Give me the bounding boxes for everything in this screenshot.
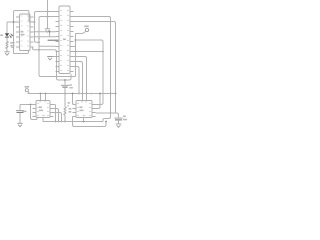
tick on node A wire — [11, 47, 13, 49]
wire IC2 right pin y21.5 to right bus x115.5 — [74, 22, 116, 114]
wire segment y22 from overlay bend to vertical bus — [29, 21, 35, 23]
wire IC2 right pin y16.5 to right bus x110.5 — [74, 17, 111, 114]
wire IC2 pin2 net vertical x39 — [39, 17, 76, 77]
wire LED net horizontal y22 — [7, 21, 20, 23]
wire IC2 right pin y61.5 down to IC5 top — [74, 62, 83, 101]
junction at (115.5,93.5) — [115, 93, 117, 95]
wire IC4 right pin y112.5 to bottom rail — [54, 113, 62, 122]
wire rail drop to IC5 left pin y104.5 — [73, 94, 77, 105]
resistor R2 mid vertical — [64, 94, 66, 108]
ground below C3 — [116, 124, 122, 127]
wire IC2 right pin y51.5 long to x103 — [70, 51, 103, 53]
junction at (39,42.3) — [38, 41, 40, 43]
terminal VCC node with wire y33.5 — [76, 32, 86, 34]
junction at (79,93.5) — [78, 93, 80, 95]
capacitor C1 under IC2 — [64, 80, 66, 85]
ground below R1 — [4, 52, 10, 55]
LED D1 — [5, 33, 9, 36]
capacitor C2 label — [22, 111, 26, 112]
wire IC5 right pin y108.5 up to rail — [96, 94, 101, 109]
wire resistor R1 to ground — [6, 49, 8, 52]
junction at (110.5,93.5) — [110, 93, 112, 95]
wire y40 to corner x103 — [76, 40, 104, 105]
junction at (40.5,93.5) — [40, 93, 42, 95]
wire vertical x75.5 from terminal to bottom bend — [75, 34, 77, 77]
IC U4 side label — [68, 102, 71, 103]
junction at (100,93.5) — [99, 93, 101, 95]
IC U2 26-pin DIP — [59, 6, 70, 74]
junction at (47.5,11.5) — [47, 11, 49, 13]
wire IC4 bottom stub to rail — [42, 118, 44, 122]
junction at (106,121.5) — [105, 121, 107, 123]
IC U2 label — [63, 38, 66, 40]
LED label — [0, 34, 3, 36]
junction at (83.5,121.5) — [83, 121, 85, 123]
wire endpoint node on rail — [91, 93, 93, 95]
IC U3 8-pin DIP — [36, 101, 50, 118]
wire IC2 pin y46.5 tie — [74, 46, 76, 48]
wire IC2 right pin y66.5 down to rail — [74, 67, 80, 94]
wire IC5 bottom stub — [83, 118, 85, 122]
junction at (59.5,121.5) — [58, 121, 60, 123]
wire horizontal y49.8 from IC1 pin then down x56.5 beside IC2 — [33, 47, 72, 80]
junction at (47.5,16.5) — [47, 16, 49, 18]
junction at (62.5,121.5) — [61, 121, 63, 123]
capacitor C2 left chain — [19, 105, 21, 110]
IC U4 8-pin DIP — [76, 101, 92, 118]
IC U1 14-pin DIP — [20, 14, 31, 51]
net label text left of IC2 — [48, 40, 59, 41]
wire to left ground at y56.5 — [53, 56, 56, 58]
wire from node A down left side to IC1 pin2 net — [14, 11, 30, 54]
junction at (65,80) — [64, 79, 66, 81]
wire rail drop to IC4 top pin a — [40, 94, 42, 101]
wire vertical bus x34.5 from IC2 pin1 row down to junction — [35, 12, 56, 43]
bottom rail y121.5 — [43, 121, 103, 123]
resistor R2 label — [69, 108, 72, 110]
junction at (75.5,51.5) — [75, 51, 77, 53]
terminal label left — [25, 86, 30, 88]
wire y113 from IC5 right pin to capacitor C3 — [96, 113, 119, 117]
wire link x49.5 between rows — [49, 32, 51, 37]
wire IC2 right pin y56.5 down to IC5 top — [74, 57, 87, 101]
wire IC4 left pin y104.5 net — [20, 104, 33, 106]
junction at (49.5,31.7) — [49, 31, 51, 33]
junction at (55.5,121.5) — [55, 121, 57, 123]
wire x30.5 down and under IC4 — [31, 105, 38, 120]
wire IC2 pin y46.3 from bus x39 — [39, 45, 56, 47]
wire IC4 right pin y104.5 to bottom rail — [54, 105, 56, 122]
wire right bus bend to bottom rail — [103, 113, 111, 122]
junction at (30.5,104.5) — [30, 104, 32, 106]
ground on x47.5 stub — [45, 29, 51, 32]
junction at (39,49.7) — [38, 49, 40, 51]
ground below C2 — [17, 123, 23, 126]
wire IC4 right pin y108.5 to bottom rail — [54, 109, 59, 122]
wire rail drop to IC4 top pin b — [45, 94, 47, 101]
capacitor C1 label — [69, 84, 72, 85]
terminal VCC label — [84, 25, 89, 27]
wire IC5 left pin y116.5 to bottom wire y126.5 — [73, 117, 107, 127]
junction at (110.5,113) — [110, 112, 112, 114]
junction at (45.5,93.5) — [45, 93, 47, 95]
wire endpoint node at (39,38.6) — [38, 38, 40, 40]
wire LED cathode to resistor R1 — [6, 38, 8, 42]
capacitor C3 — [115, 117, 123, 119]
junction at (82.5,93.5) — [82, 93, 84, 95]
IC U4 label — [80, 106, 83, 108]
resistor R1 label — [10, 42, 14, 44]
junction at (86.5,93.5) — [86, 93, 88, 95]
wire R2 bottom to rail y121.5 — [64, 115, 66, 122]
junction at (103,51.5) — [102, 51, 104, 53]
wire from node A bend to IC1 bottom — [14, 51, 29, 54]
capacitor C3 label — [123, 116, 126, 118]
junction at (34.5,22) — [34, 21, 36, 23]
junction at (72.5,93.5) — [72, 93, 74, 95]
resistor R1 — [6, 42, 9, 49]
power rail y93.5 — [28, 93, 116, 95]
junction at (65,121.5) — [64, 121, 66, 123]
junction at (75.5,40) — [75, 39, 77, 41]
wire IC1 pin y32 to IC2 pin y31.5 — [34, 31, 56, 33]
junction at (13.5,22) — [13, 21, 15, 23]
terminal node circle left — [25, 89, 28, 92]
ground at left of IC2 — [47, 57, 53, 60]
IC U3 label — [39, 106, 42, 108]
wire IC1 pin y37 to IC2 pin y36.5 — [34, 36, 56, 38]
junction at (65,93.5) — [64, 93, 66, 95]
wire ground stub from top edge x47.5 — [47, 0, 49, 29]
IC U1 label — [21, 31, 24, 33]
wire LED anode — [6, 22, 8, 33]
